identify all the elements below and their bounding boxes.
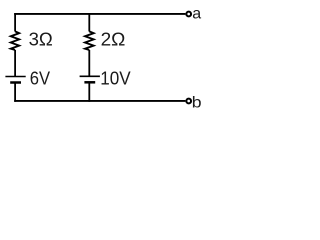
- terminal a open circle: [186, 12, 191, 17]
- wire left branch bottom stub: [14, 83, 16, 102]
- wire middle branch bottom stub: [88, 82, 90, 102]
- terminal b open circle: [186, 99, 191, 104]
- svg-text:10V: 10V: [100, 69, 130, 89]
- battery V1 6V long positive plate: [5, 76, 25, 78]
- battery V1 6V short negative plate: [10, 81, 21, 84]
- svg-text:3Ω: 3Ω: [29, 30, 53, 50]
- battery V2 10V short negative plate: [84, 81, 95, 84]
- wire middle branch between R2 and V2: [88, 50, 90, 76]
- svg-text:2Ω: 2Ω: [101, 30, 126, 50]
- wire bottom rail from bottom-left corner to terminal b: [14, 100, 185, 102]
- wire top rail from top-left corner to terminal a: [14, 13, 185, 15]
- wire middle branch top stub: [88, 13, 90, 31]
- battery V2 10V long positive plate: [80, 75, 100, 77]
- svg-text:b: b: [192, 94, 202, 111]
- wire left branch top stub: [14, 13, 16, 31]
- wire left branch between R1 and V1: [14, 50, 16, 76]
- svg-text:6V: 6V: [30, 69, 50, 89]
- svg-text:a: a: [192, 5, 201, 22]
- resistor R2 2Ω zigzag: [85, 31, 94, 50]
- resistor R1 3Ω zigzag: [11, 31, 19, 50]
